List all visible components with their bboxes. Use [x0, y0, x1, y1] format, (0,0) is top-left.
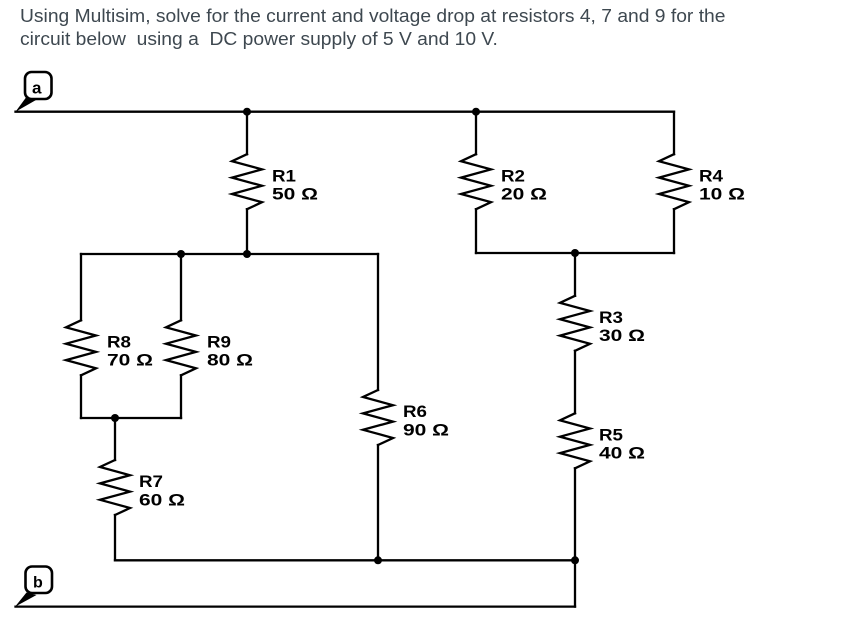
svg-text:R5: R5 [599, 427, 623, 445]
label R7 60 ohm [139, 473, 185, 509]
svg-text:10 Ω: 10 Ω [699, 186, 745, 204]
svg-text:80 Ω: 80 Ω [207, 352, 253, 370]
junction R3 top node [571, 249, 579, 257]
resistor R8 [66, 254, 96, 418]
junction node a / R1 top [243, 108, 251, 116]
junction R1 bottom [243, 250, 251, 258]
resistor R3 [560, 296, 590, 351]
svg-text:R7: R7 [139, 473, 163, 491]
svg-text:20 Ω: 20 Ω [501, 186, 547, 204]
wire R3-R5 middle [574, 351, 576, 414]
wire R5 bottom lead [574, 468, 576, 560]
label R2 20 ohm [501, 167, 547, 203]
junction R9 top [177, 250, 185, 258]
label R3 30 ohm [599, 309, 645, 345]
svg-text:40 Ω: 40 Ω [599, 445, 645, 463]
wire node b horizontal [16, 605, 576, 607]
resistor R7 [100, 418, 130, 560]
svg-text:R3: R3 [599, 309, 623, 327]
label R1 50 ohm [272, 167, 318, 203]
wire top node a horizontal [16, 111, 675, 113]
resistor R6 [363, 254, 393, 560]
svg-text:60 Ω: 60 Ω [139, 491, 185, 509]
question text [20, 5, 847, 50]
svg-text:R4: R4 [699, 167, 724, 185]
svg-text:R2: R2 [501, 167, 525, 185]
label R8 70 ohm [107, 333, 153, 369]
wire R8-R9 bottom horizontal [81, 417, 181, 419]
resistor R4 [659, 112, 689, 253]
junction node a / R2 top [472, 108, 480, 116]
terminal a [16, 72, 52, 112]
resistor R2 [461, 112, 491, 253]
label R4 10 ohm [699, 167, 745, 203]
svg-text:30 Ω: 30 Ω [599, 327, 645, 345]
wire R2-R4 bottom horizontal [476, 252, 674, 254]
label R5 40 ohm [599, 427, 645, 463]
svg-text:a: a [32, 79, 42, 98]
resistor R5 [560, 413, 590, 468]
junction R5 bottom / node b [571, 556, 579, 564]
resistor R1 [232, 112, 262, 254]
terminal b [15, 567, 52, 607]
wire second level horizontal [81, 253, 378, 255]
svg-text:50 Ω: 50 Ω [272, 186, 318, 204]
junction R7 top [111, 414, 119, 422]
svg-text:b: b [33, 575, 43, 592]
wire R3 top lead [574, 253, 576, 296]
svg-text:90 Ω: 90 Ω [403, 421, 449, 439]
wire bottom horizontal [115, 559, 575, 561]
svg-text:R9: R9 [207, 333, 231, 351]
resistor R9 [166, 254, 196, 418]
svg-text:R6: R6 [403, 403, 427, 421]
label R9 80 ohm [207, 333, 253, 369]
svg-text:R8: R8 [107, 333, 131, 351]
junction R6 bottom [374, 556, 382, 564]
label R6 90 ohm [403, 403, 449, 439]
svg-text:70 Ω: 70 Ω [107, 352, 153, 370]
wire node b vertical [574, 560, 576, 606]
svg-text:R1: R1 [272, 167, 296, 185]
